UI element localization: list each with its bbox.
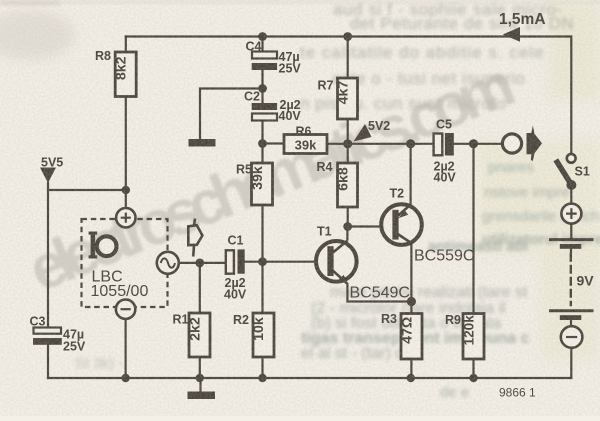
wire battery dashed cell link — [570, 254, 572, 305]
junction node T1 collector / T2 base / R4 — [343, 222, 352, 231]
wire mic plus to junction — [125, 190, 127, 208]
battery plus terminal — [561, 204, 581, 224]
svg-text:47Ω: 47Ω — [400, 317, 416, 344]
current label 1,5mA — [503, 27, 520, 42]
capacitor C2 — [252, 103, 277, 110]
wire R7 top — [347, 37, 349, 79]
svg-text:9V: 9V — [577, 273, 595, 289]
wire bottom ground rail — [48, 377, 571, 379]
resistor R6 — [284, 135, 327, 154]
wire R9 bottom — [472, 359, 474, 378]
svg-text:R9: R9 — [445, 313, 461, 327]
wire ground branch left — [200, 89, 263, 139]
svg-text:5V2: 5V2 — [368, 119, 390, 133]
svg-text:8k2: 8k2 — [114, 56, 130, 80]
wire top supply rail — [126, 37, 572, 154]
wire T1 collector node to T2 base — [348, 225, 393, 227]
wire R3 bottom — [410, 359, 412, 378]
resistor R7 — [338, 78, 358, 119]
junction node R8 / mic plus (5V5) — [122, 186, 130, 194]
svg-text:40V: 40V — [434, 171, 457, 185]
bleed-through text (back of page) — [300, 0, 574, 113]
output jack — [502, 134, 521, 153]
wire R8 bottom to +mic junction — [125, 97, 127, 191]
wire mic output to C1 — [179, 262, 226, 264]
screened cable symbol — [188, 219, 202, 257]
junction node T1 base / C1 / R5 / R2 — [258, 257, 267, 266]
switch S1 — [567, 154, 576, 163]
junction node R3 ground rail — [407, 374, 415, 382]
svg-text:120k: 120k — [462, 315, 477, 346]
resistor R5 — [252, 163, 273, 205]
svg-text:R2: R2 — [233, 313, 249, 327]
wire node to R6 — [263, 142, 285, 144]
pale highlight tints — [548, 0, 600, 100]
wire C1 to T1 base — [245, 261, 328, 263]
svg-text:de e: de e — [440, 384, 469, 401]
wire R3 top — [410, 302, 412, 314]
mic AC source terminal — [157, 252, 179, 274]
svg-text:C3: C3 — [30, 315, 46, 329]
svg-text:el al st - (tar) de: el al st - (tar) de — [301, 345, 413, 362]
wire R8 top — [125, 37, 127, 53]
node 5V5 arrow — [40, 168, 56, 184]
junction node T2 emitter bus — [406, 139, 415, 148]
svg-text:St 3k) -: St 3k) - — [75, 355, 123, 372]
junction node C4 top rail — [258, 32, 267, 41]
svg-text:R6: R6 — [296, 125, 312, 139]
transistor T1 — [316, 225, 410, 302]
wire R1 top from mic node — [199, 263, 201, 313]
resistor R1 — [189, 313, 210, 357]
resistor R8 — [115, 52, 136, 97]
resistor R4 — [338, 163, 358, 207]
battery cell 2 — [549, 309, 594, 312]
svg-text:2k2: 2k2 — [188, 317, 204, 341]
junction node R7 top rail — [343, 32, 352, 41]
wire T2 emitter up to bus — [410, 144, 412, 205]
svg-text:S1: S1 — [575, 165, 590, 179]
wire right side below battery — [570, 348, 572, 378]
wire R4 bottom to T1 collector node — [347, 207, 349, 227]
svg-text:R3: R3 — [381, 312, 397, 326]
svg-text:te calitatile do abditie s. ce: te calitatile do abditie s. cele — [300, 43, 545, 62]
svg-text:T1: T1 — [317, 225, 332, 239]
battery minus terminal — [561, 326, 583, 348]
wire T1 emitter to R3 node — [347, 284, 411, 302]
svg-text:BC549C: BC549C — [350, 285, 410, 302]
ground (lower) — [199, 378, 201, 392]
mic minus terminal — [116, 300, 135, 319]
capacitor C5 — [434, 134, 443, 156]
svg-text:10k: 10k — [251, 317, 267, 341]
capacitor C3 — [34, 328, 62, 334]
junction node mic output / R1 — [195, 259, 204, 268]
capacitor C4 — [252, 52, 277, 59]
wire C2 to R5 node — [261, 121, 263, 164]
resistor R2 — [253, 313, 274, 357]
junction node A R7/R4/R6 (5V2) — [343, 139, 352, 148]
resistor R3 — [401, 314, 422, 360]
svg-text:R7: R7 — [318, 79, 334, 93]
wire node A to R4 — [347, 144, 349, 163]
wire T2 collector down — [410, 244, 412, 302]
svg-text:39k: 39k — [295, 138, 317, 153]
battery cell 1 — [549, 238, 594, 241]
wire C4 to C2 through ground node — [261, 70, 263, 103]
junction node C2/R6/R5 — [258, 139, 267, 148]
svg-text:6k8: 6k8 — [336, 167, 352, 191]
junction node T1 emitter / T2 collector / R3 — [407, 297, 416, 306]
svg-text:5V5: 5V5 — [41, 156, 63, 170]
wire 5V5 column and bottom-left rail — [47, 183, 49, 378]
mic plus terminal — [116, 208, 135, 227]
svg-text:1055/00: 1055/00 — [91, 283, 149, 300]
svg-text:1,5mA: 1,5mA — [499, 11, 546, 28]
svg-text:R8: R8 — [95, 49, 111, 63]
wire R7 bottom to node A — [347, 119, 349, 144]
wire 5V5 junction horizontal — [48, 189, 126, 191]
svg-text:nstove impre: nstove impre — [484, 184, 570, 201]
junction node R2 ground rail — [258, 374, 266, 382]
node 5V2 arrow — [354, 124, 372, 142]
junction node R9 ground rail — [469, 374, 477, 382]
junction node C5 output / R9 — [469, 139, 478, 148]
svg-text:T2: T2 — [390, 187, 405, 201]
wire mic minus down to rail — [124, 319, 126, 378]
top edge scan smudge — [0, 0, 600, 4]
wire output node down to R9 — [472, 144, 474, 314]
transistor T2 — [381, 187, 474, 265]
resistor R9 — [463, 314, 484, 360]
svg-text:C2: C2 — [244, 90, 260, 104]
junction node C4/C2/ground — [258, 84, 267, 93]
wire R1 bottom — [199, 357, 201, 378]
output arrow plug — [527, 126, 543, 162]
wire R2 bottom — [261, 357, 263, 378]
svg-text:C4: C4 — [246, 40, 262, 54]
svg-text:R1: R1 — [173, 313, 189, 327]
capacitor C1 — [226, 250, 234, 273]
watermark electroschematics.com — [20, 51, 522, 305]
junction node R1 ground rail — [196, 374, 204, 382]
svg-text:4k7: 4k7 — [336, 81, 352, 105]
junction node mic minus ground rail — [121, 374, 129, 382]
wire R5 bottom through base node to R2 — [261, 205, 263, 313]
wire battery column — [570, 185, 572, 326]
svg-text:40V: 40V — [224, 288, 247, 302]
svg-text:C5: C5 — [436, 118, 452, 132]
wire C4 branch from rail — [261, 37, 263, 52]
svg-text:C1: C1 — [228, 234, 244, 248]
svg-text:R4: R4 — [317, 160, 333, 174]
svg-text:pnares: pnares — [488, 159, 534, 176]
svg-text:25V: 25V — [63, 340, 86, 354]
ground (upper) — [189, 139, 216, 147]
microphone dashed box — [82, 219, 168, 307]
svg-text:25V: 25V — [279, 62, 302, 76]
svg-text:39k: 39k — [250, 166, 266, 190]
wire main bus R6 to C5 — [327, 143, 434, 145]
svg-text:40V: 40V — [279, 109, 302, 123]
svg-text:BC559C: BC559C — [414, 248, 474, 265]
svg-text:9866 1: 9866 1 — [499, 386, 536, 400]
mic transducer symbol — [97, 236, 117, 256]
wire C5 to jack — [454, 143, 503, 145]
